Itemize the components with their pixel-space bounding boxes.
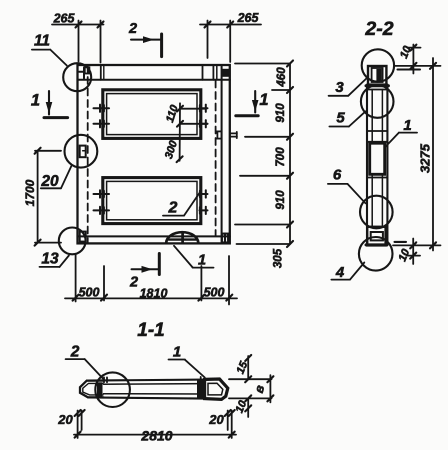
joint lines above central rect: [367, 130, 387, 132]
embed opening2 right lower: [200, 207, 208, 214]
dimension 2810: [74, 410, 236, 438]
section mark 2 bottom: [158, 254, 161, 275]
hidden edge dashed left: [87, 66, 89, 244]
svg-text:265: 265: [53, 12, 76, 26]
top embed box: [368, 66, 386, 85]
panel top rib inner line: [78, 79, 230, 81]
dimension B right side: [229, 375, 273, 402]
left end cap: [80, 381, 104, 398]
svg-text:305: 305: [273, 248, 285, 268]
svg-text:1: 1: [259, 91, 268, 109]
detail circle bottom-left 13: [59, 228, 86, 255]
svg-text:700: 700: [275, 147, 287, 167]
member outer edges: [366, 85, 368, 246]
svg-text:2: 2: [129, 275, 138, 291]
top rib tick d: [212, 66, 214, 80]
detail circle top-left 11: [63, 63, 91, 91]
svg-text:2: 2: [128, 21, 137, 37]
svg-text:2-2: 2-2: [364, 18, 393, 40]
svg-text:500: 500: [79, 286, 100, 300]
detail circle mid-left 20: [65, 135, 98, 168]
svg-text:13: 13: [41, 251, 59, 268]
embed opening2 left lower: [94, 207, 110, 214]
opening 2 outer: [103, 178, 201, 224]
opening 1 inner: [107, 94, 197, 135]
joint line below central rect: [367, 177, 387, 179]
top rib tick e: [216, 66, 218, 80]
dimension 265 top-left: [52, 21, 104, 63]
svg-text:1700: 1700: [23, 179, 37, 206]
opening 2 inner: [107, 181, 197, 219]
right end dark bar: [197, 380, 205, 399]
top rib tick c: [202, 66, 204, 80]
panel outer outline: [78, 65, 230, 243]
bar top outer: [87, 379, 221, 380]
embed opening2 right upper: [200, 190, 208, 197]
dimension 1700 left: [35, 148, 61, 246]
svg-text:1: 1: [31, 92, 40, 110]
svg-text:2: 2: [168, 200, 178, 217]
svg-text:300: 300: [163, 138, 180, 160]
embed in circle 13: [80, 232, 86, 242]
dimension 3275: [430, 58, 436, 251]
dimension 265 top-right: [200, 21, 261, 63]
panel right rib inner line: [221, 65, 223, 243]
dimension 10 top: [394, 45, 441, 74]
svg-text:3: 3: [335, 79, 344, 96]
svg-text:4: 4: [335, 264, 345, 281]
bar top inner: [104, 383, 205, 386]
bar bottom inner: [104, 393, 205, 395]
top rib tick a: [100, 66, 102, 80]
svg-text:1: 1: [173, 344, 181, 361]
embed tick right: [200, 377, 202, 382]
dimension 10 bottom: [393, 239, 441, 265]
detail circle 4: [359, 237, 393, 271]
member inner edges: [371, 90, 373, 144]
svg-text:1810: 1810: [140, 287, 168, 301]
corner embed top-right: [222, 69, 229, 76]
detail circle 3: [362, 49, 394, 81]
hidden edge dashed right: [215, 81, 217, 237]
top rib tick b: [103, 66, 105, 79]
svg-text:1: 1: [403, 117, 411, 134]
svg-text:2: 2: [70, 344, 80, 361]
bottom embed box: [367, 227, 385, 246]
right vertical dimension chain: [235, 61, 293, 248]
corner embed bottom-right: [222, 234, 228, 243]
svg-text:460: 460: [276, 67, 288, 88]
svg-text:265: 265: [237, 11, 260, 25]
dimension 110/300 line: [177, 103, 208, 162]
embed opening1 left lower: [94, 120, 110, 127]
section mark 1 right: [254, 91, 256, 113]
embed opening1 right upper: [200, 105, 208, 112]
embed opening1 left upper: [94, 105, 110, 112]
detail circle 6: [360, 196, 393, 229]
left end dark bar: [97, 382, 103, 397]
opening 1 outer: [103, 90, 201, 139]
svg-text:11: 11: [34, 33, 50, 50]
embed in circle 20: [80, 146, 86, 158]
central element rect: [370, 143, 385, 174]
svg-text:910: 910: [275, 190, 287, 210]
right end cap: [205, 379, 228, 399]
svg-text:5: 5: [336, 110, 345, 127]
svg-text:20: 20: [57, 412, 73, 427]
svg-text:10: 10: [398, 44, 414, 61]
svg-text:110: 110: [164, 103, 181, 124]
bottom notch arc: [166, 232, 198, 243]
embed in circle 11: [79, 67, 89, 78]
label 1 bottom leader: [174, 246, 193, 268]
svg-text:910: 910: [275, 103, 287, 123]
embed opening2 left upper: [94, 190, 110, 197]
bar bottom outer: [88, 397, 205, 398]
svg-text:2810: 2810: [140, 428, 172, 444]
dimension 10 on 1-1: [247, 398, 249, 417]
svg-text:в: в: [252, 383, 268, 394]
right end inner wedge: [208, 383, 223, 395]
dimension 15: [247, 356, 249, 379]
embed ticks left: [103, 377, 105, 382]
detail circle 2 on 1-1: [95, 372, 130, 407]
panel bottom rib inner line: [78, 235, 230, 237]
svg-text:500: 500: [204, 286, 225, 300]
bottom dimension chain 500 1810 500: [65, 254, 237, 305]
mid-right embed: [217, 131, 236, 138]
svg-text:3275: 3275: [418, 143, 433, 173]
detail circle 5: [361, 85, 394, 118]
svg-text:6: 6: [333, 167, 342, 184]
svg-text:1-1: 1-1: [137, 320, 164, 341]
svg-text:20: 20: [208, 412, 224, 427]
embed opening1 right lower: [200, 120, 208, 127]
joint band below top embed: [366, 84, 388, 87]
